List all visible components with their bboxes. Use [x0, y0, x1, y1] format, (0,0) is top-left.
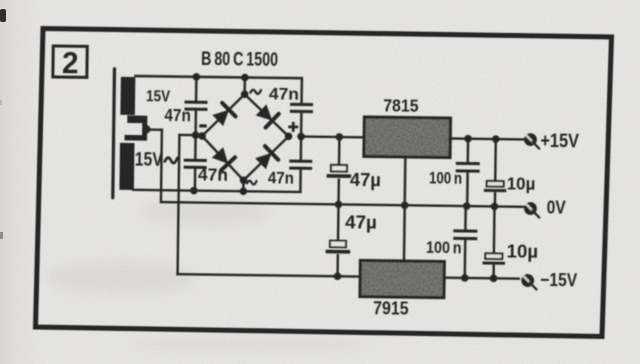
transformer secondary winding 1 (15V) [120, 77, 135, 115]
transformer secondary winding 2 (15V) [119, 143, 134, 190]
capacitor 47u positive rail [327, 165, 352, 176]
wire: bridge cap-ring right side lower [299, 170, 302, 192]
bridge plus sign [288, 122, 298, 132]
wire: bridge edge - to ~top [202, 94, 245, 137]
label 100n negative [426, 238, 462, 257]
wire: 7815 output to +15V [450, 137, 523, 140]
label -15V [540, 269, 578, 290]
junction: top rail / cap ring left [193, 73, 201, 81]
wire: 47u neg vertical [336, 204, 339, 276]
diode D2 (~top to +) [256, 104, 279, 128]
wire: bridge edge ~bottom to + [244, 136, 289, 181]
junction: 0V / 47u [335, 201, 343, 209]
wire: bridge cap-ring right side upper [300, 78, 303, 102]
wire: regulator ground pin [404, 157, 405, 261]
wire: 100n pos vertical [466, 139, 469, 206]
label 7815 [383, 95, 419, 115]
wire: AC1 top rail [135, 76, 301, 78]
capacitor 47n across D4 [289, 161, 312, 168]
junction: + line / 100n [464, 135, 472, 143]
figure label 2 [53, 45, 87, 80]
regulator IC1 body texture [365, 119, 448, 156]
wire: bridge cap-ring left side middle [194, 111, 197, 159]
junction: 0V / 100n [463, 202, 471, 210]
wire: bridge bottom stub [242, 180, 245, 191]
label 47n (across D1) [164, 105, 191, 125]
wire: minus to 7915 input [178, 274, 361, 276]
label 100n positive [429, 168, 462, 187]
terminal 0V [524, 202, 539, 217]
wire: bridge cap-ring left side lower [194, 169, 197, 191]
label 7915 [373, 298, 409, 318]
AC symbol ~ at bridge bottom [247, 181, 257, 185]
junction: + line / 10u [492, 135, 500, 143]
junction: bridge right vertex (+) [285, 132, 305, 140]
junction: - line / 47u [334, 272, 342, 280]
label 47u positive [350, 170, 381, 190]
AC symbol ~ at bridge top [250, 90, 261, 94]
wire: 100n neg vertical [464, 206, 467, 278]
capacitor 47n across D2 [290, 104, 313, 111]
wire: 10u neg vertical [492, 206, 495, 278]
label 47n (across D3) [198, 164, 228, 184]
junction: bridge left vertex (-) [192, 131, 206, 140]
label 47n (across D4) [268, 168, 294, 187]
label +15V [540, 130, 579, 153]
terminal -15V [521, 274, 536, 289]
capacitor 10u positive [484, 181, 507, 191]
bridge minus sign [199, 124, 206, 127]
junction: bottom rail / cap ring left [190, 187, 198, 195]
transformer core [113, 69, 115, 198]
wire: bridge edge - to ~bottom [202, 136, 245, 180]
label 15V upper winding [146, 88, 171, 105]
wire: bridge + to 7815 input [301, 135, 364, 138]
wire: 7915 output to -15V [444, 276, 519, 279]
wire: AC2 bottom rail [133, 190, 300, 192]
junction: top rail / bridge top [241, 74, 249, 82]
diode D3 (- to ~bottom) [212, 147, 236, 170]
wire: 47u pos vertical [337, 137, 340, 204]
junction: centre tap [142, 125, 151, 134]
winding2 upper terminal step [125, 129, 148, 141]
junction: 0V / regulator ground [401, 201, 409, 209]
capacitor 100n positive [456, 163, 480, 171]
junction: bottom rail / bridge bottom [240, 187, 248, 195]
AC symbol ~ lower winding [165, 158, 178, 164]
diode D1 (- to ~top) [212, 103, 236, 126]
scan artifact left edge [0, 9, 6, 239]
label B80C1500 bridge type [201, 49, 278, 71]
wire: bridge - to left [179, 134, 195, 137]
wire: bridge edge ~top to + [244, 94, 289, 136]
regulator IC2 7915 [360, 260, 444, 297]
label 10u positive [507, 174, 536, 194]
label 10u negative [506, 241, 538, 261]
wire: centre tap to 0V staircase [145, 130, 162, 202]
drawing frame [36, 29, 612, 337]
junction: -15V line / 10u [490, 274, 498, 282]
regulator IC1 7815 [364, 117, 451, 158]
junction: 0V / 10u [491, 203, 499, 211]
junction: bridge top vertex (~) [241, 90, 249, 98]
capacitor 47n across D3 [184, 160, 207, 167]
winding1 lower terminal step [127, 115, 147, 129]
wire: minus vertical drop [178, 135, 180, 274]
capacitor 47u negative rail [326, 241, 351, 252]
capacitor 10u negative [483, 253, 506, 263]
junction: + line / 47u [336, 133, 344, 141]
label 15V lower winding [135, 150, 164, 171]
terminal +15V [524, 133, 539, 148]
wire: bridge cap-ring right side middle [300, 113, 303, 159]
wire: 0V rail [161, 202, 523, 207]
label 0V [547, 198, 566, 218]
wire: 10u pos vertical [494, 139, 497, 206]
label 47n (across D2) [269, 84, 299, 103]
junction: bridge bottom vertex (~) [240, 176, 248, 184]
wire: bridge top stub [243, 77, 246, 94]
diode D4 (~bottom to +) [255, 146, 278, 169]
wire: bridge cap-ring left side upper [195, 77, 198, 100]
regulator IC2 body texture [362, 262, 443, 296]
label 47u negative [345, 212, 377, 232]
junction: -15V line / 100n [461, 274, 469, 282]
capacitor 47n across D1 [184, 102, 207, 109]
capacitor 100n negative [453, 231, 477, 239]
